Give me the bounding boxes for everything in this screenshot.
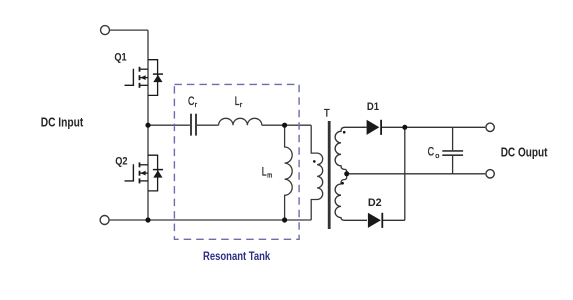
svg-text:L: L bbox=[262, 164, 267, 178]
svg-text:T: T bbox=[324, 108, 330, 120]
svg-text:Q1: Q1 bbox=[114, 52, 126, 64]
svg-text:D1: D1 bbox=[367, 101, 379, 113]
svg-text:DC Input: DC Input bbox=[41, 115, 84, 129]
svg-text:Q2: Q2 bbox=[115, 156, 127, 168]
svg-text:D2: D2 bbox=[368, 197, 382, 209]
svg-text:DC Ouput: DC Ouput bbox=[501, 145, 548, 160]
svg-text:m: m bbox=[267, 171, 272, 180]
svg-text:o: o bbox=[435, 151, 439, 160]
svg-text:Resonant Tank: Resonant Tank bbox=[203, 251, 271, 263]
svg-text:C: C bbox=[428, 145, 435, 159]
